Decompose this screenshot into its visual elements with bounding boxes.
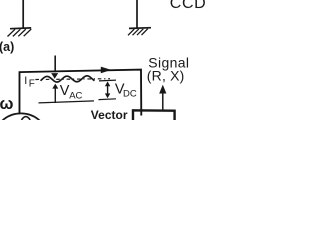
waveform axis dash-dot line: [35, 78, 110, 81]
down arrowhead onto waveform: [51, 73, 58, 79]
V_DC double arrow: [107, 83, 109, 97]
ground G1 lead wire: [22, 0, 24, 29]
svg-text:CCD: CCD: [170, 0, 206, 12]
svg-text:Vector: Vector: [91, 108, 128, 120]
svg-text:(a): (a): [0, 40, 14, 54]
ground G1 hatching: [7, 29, 31, 37]
AC source sine hump: [21, 117, 30, 120]
wire: source up, top wire, right drop into analyzer: [19, 70, 141, 116]
ground G2 hatching: [128, 29, 148, 36]
V_DC measure: top cap: [99, 79, 116, 82]
ground G2 bar: [129, 27, 151, 30]
svg-text:(R, X): (R, X): [147, 67, 185, 83]
signal output arrow: [162, 93, 164, 111]
svg-text:ω: ω: [0, 95, 13, 113]
AC current waveform: [40, 76, 94, 82]
svg-text:DC: DC: [123, 88, 137, 99]
V_DC measure: bottom cap: [98, 98, 116, 101]
vector analyzer box (cut at bottom edge): [133, 110, 175, 120]
ground G1 bar: [10, 27, 31, 30]
V_AC measure arrow: [54, 88, 56, 104]
AC source circle (cut at bottom edge): [0, 113, 49, 169]
current direction arrowhead on top wire: [101, 67, 112, 74]
svg-text:AC: AC: [69, 90, 82, 101]
ground G2 lead wire: [136, 0, 138, 28]
V_AC reference line: [38, 101, 94, 103]
svg-text:I: I: [24, 75, 27, 87]
node stub from part (a): [54, 56, 56, 73]
svg-text:F: F: [29, 79, 35, 90]
